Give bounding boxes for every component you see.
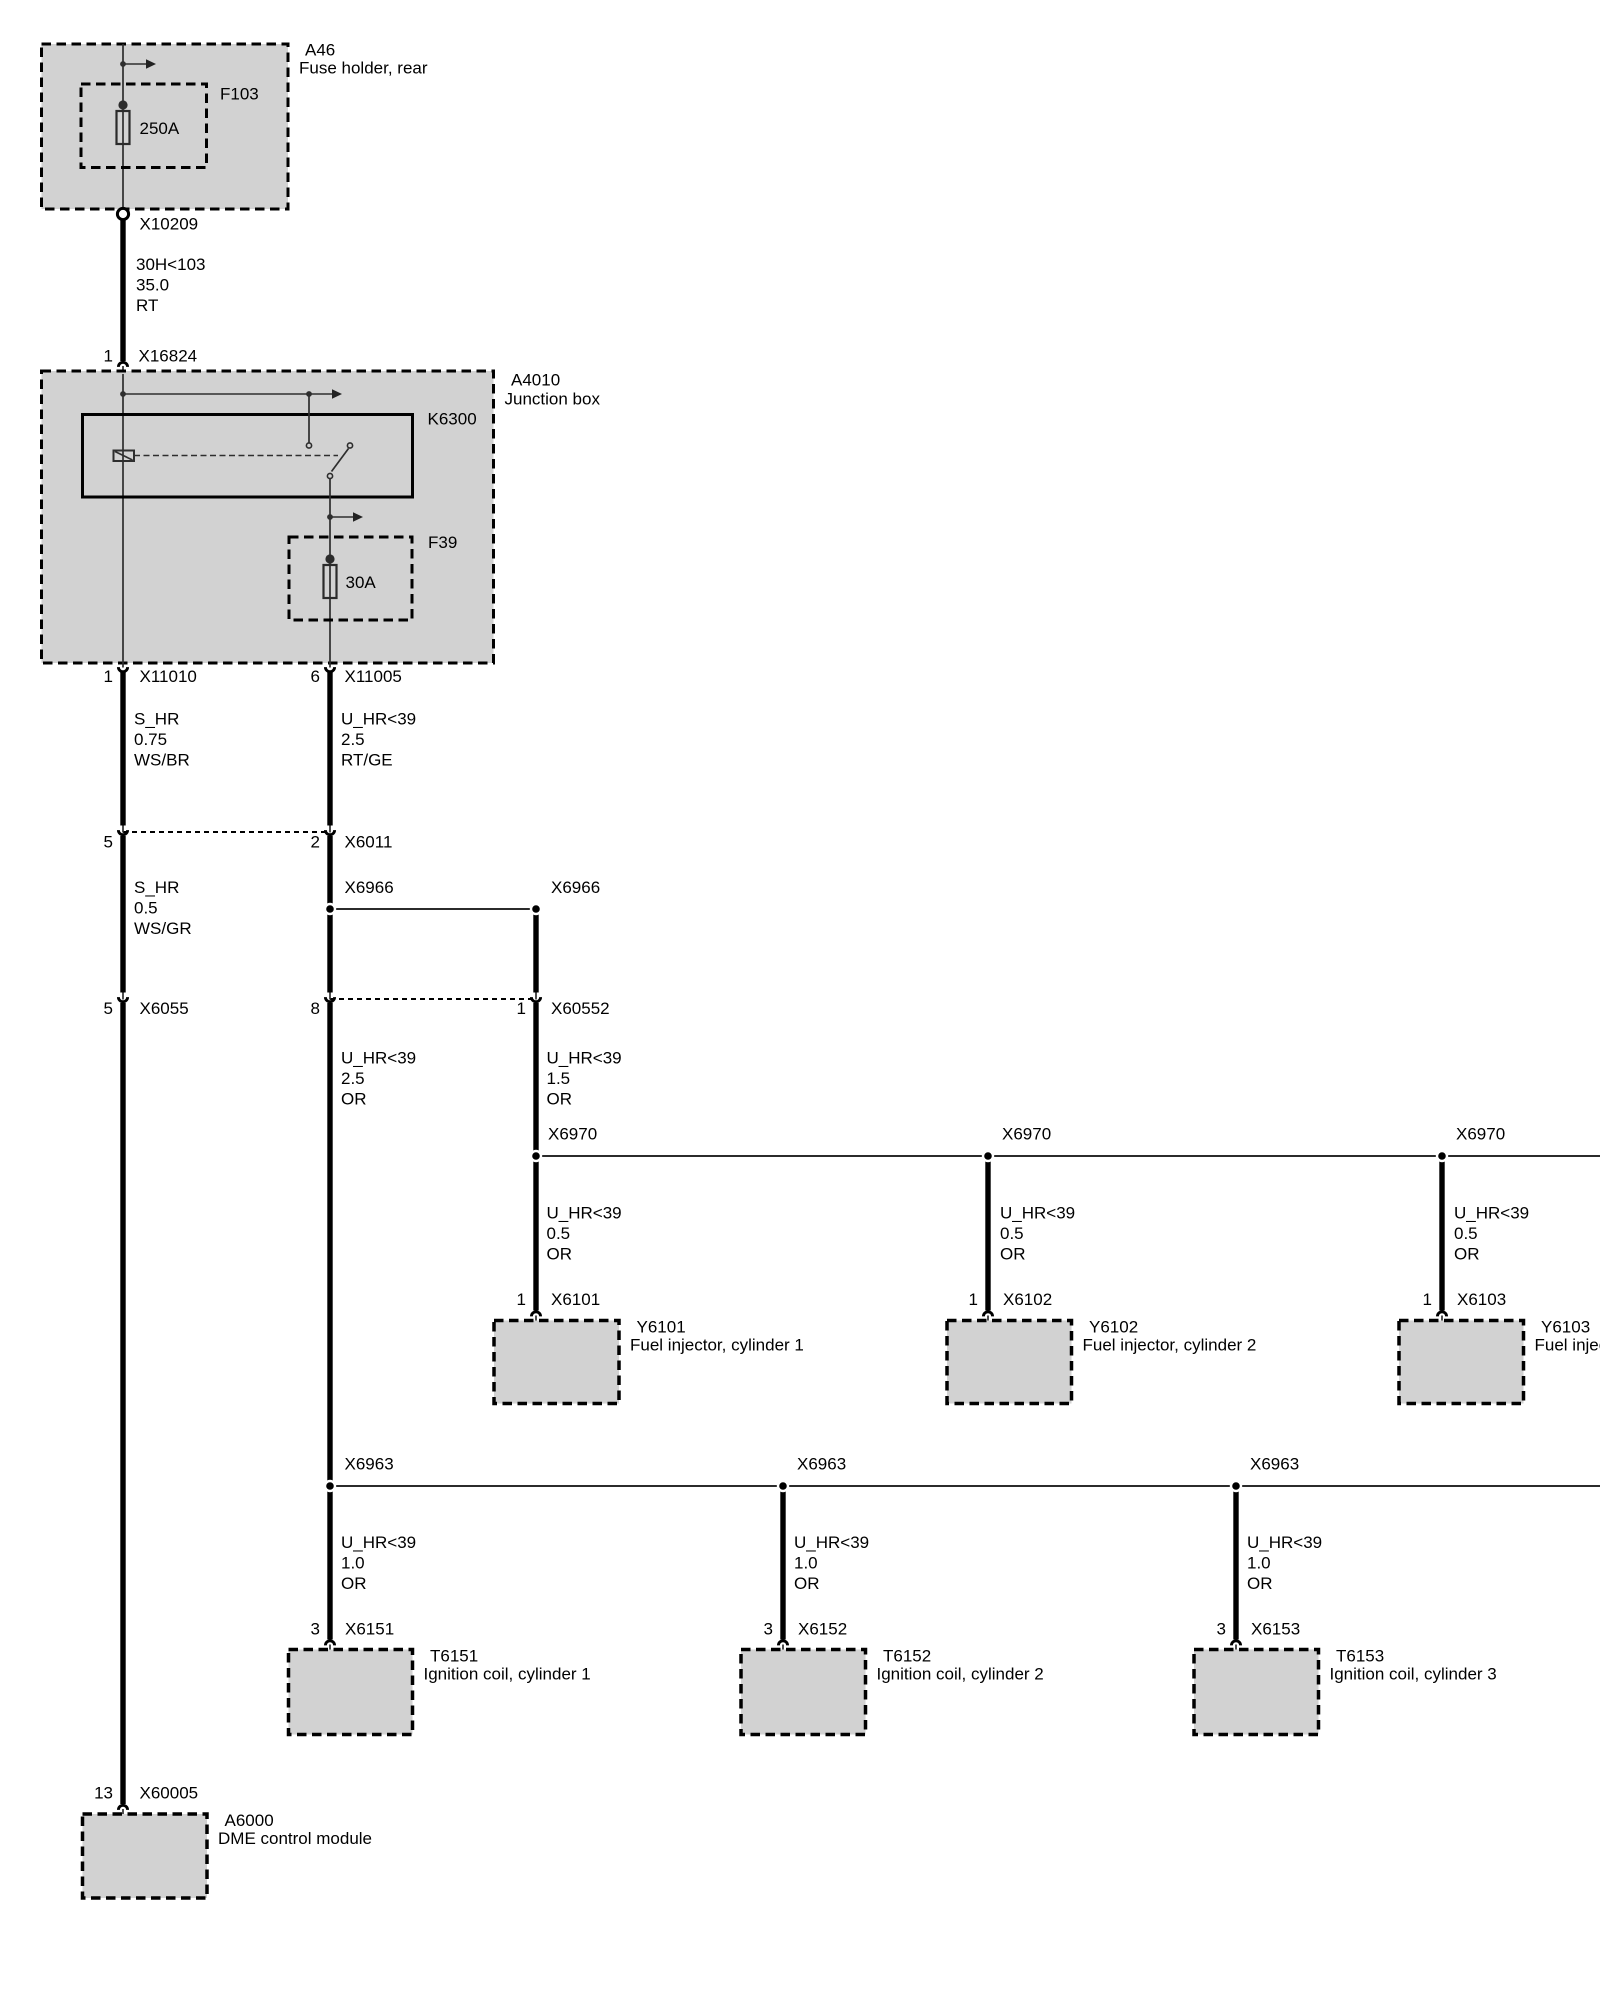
node X6970 bus bbox=[530, 1150, 1600, 1162]
svg-text:1.0: 1.0 bbox=[794, 1554, 818, 1573]
fuse F103 250A bbox=[117, 100, 130, 144]
wire inside A4010 left bbox=[122, 374, 124, 663]
wire S_HR 0.5 WS/GR bbox=[120, 836, 125, 993]
label X16824 bbox=[104, 347, 198, 366]
connector X6011 pin 5 bbox=[118, 826, 127, 835]
svg-text:Y6101: Y6101 bbox=[637, 1318, 686, 1337]
connector X6102 pin 1 bbox=[983, 1312, 992, 1323]
svg-text:1: 1 bbox=[969, 1290, 978, 1309]
svg-text:5: 5 bbox=[104, 833, 113, 852]
svg-text:OR: OR bbox=[341, 1090, 367, 1109]
wire U_HR<39 2.5 OR bbox=[327, 1003, 332, 1640]
label X6011 bbox=[104, 833, 393, 852]
svg-text:8: 8 bbox=[311, 999, 320, 1018]
svg-text:X10209: X10209 bbox=[140, 215, 199, 234]
box Y6103 Fuel injector cylinder 3 bbox=[1399, 1321, 1524, 1404]
label A46 bbox=[299, 41, 428, 78]
svg-text:WS/GR: WS/GR bbox=[134, 919, 192, 938]
label X6970 first bbox=[548, 1125, 597, 1144]
svg-text:X11005: X11005 bbox=[345, 667, 402, 686]
box A6000 DME control module bbox=[83, 1814, 208, 1898]
svg-text:250A: 250A bbox=[140, 119, 180, 138]
wire label U_HR<39 2.5 OR bbox=[341, 1049, 416, 1109]
label A4010 bbox=[505, 371, 601, 409]
svg-text:0.5: 0.5 bbox=[547, 1224, 571, 1243]
svg-text:Fuel injector, cylinder 2: Fuel injector, cylinder 2 bbox=[1083, 1336, 1257, 1355]
svg-text:1.0: 1.0 bbox=[341, 1554, 365, 1573]
svg-text:6: 6 bbox=[311, 667, 320, 686]
svg-text:U_HR<39: U_HR<39 bbox=[547, 1204, 622, 1223]
svg-text:OR: OR bbox=[547, 1245, 573, 1264]
svg-text:30A: 30A bbox=[346, 573, 377, 592]
label Y6102 bbox=[1083, 1318, 1257, 1355]
wire label U_HR<39 2.5 RT/GE bbox=[341, 710, 416, 770]
wire U_HR<39 1.5 OR bbox=[533, 1003, 538, 1156]
svg-text:35.0: 35.0 bbox=[136, 276, 169, 295]
svg-text:A6000: A6000 bbox=[225, 1811, 274, 1830]
svg-text:0.75: 0.75 bbox=[134, 730, 167, 749]
svg-text:0.5: 0.5 bbox=[1454, 1224, 1478, 1243]
svg-text:1: 1 bbox=[517, 999, 526, 1018]
branch arrow after relay bbox=[327, 512, 363, 522]
svg-text:A46: A46 bbox=[305, 41, 335, 60]
label X60552 bbox=[311, 999, 610, 1018]
svg-text:X6103: X6103 bbox=[1457, 1290, 1506, 1309]
wire X6966 branch down bbox=[533, 909, 538, 993]
svg-text:X6152: X6152 bbox=[798, 1620, 847, 1639]
label X60005 bbox=[94, 1784, 198, 1803]
label X6152 bbox=[764, 1620, 848, 1639]
svg-text:2: 2 bbox=[311, 833, 320, 852]
wire label U_HR<39 0.5 OR cyl1 bbox=[547, 1204, 622, 1264]
box T6152 Ignition coil cylinder 2 bbox=[741, 1650, 866, 1735]
connector X11005 pin 6 bbox=[325, 663, 334, 672]
relay control dashed link bbox=[134, 455, 338, 457]
connector X6151 pin 3 bbox=[325, 1641, 334, 1652]
connector X60005 pin 13 bbox=[118, 1805, 127, 1817]
label X6966 right bbox=[551, 878, 600, 897]
connector X60552 pin 8 bbox=[325, 993, 334, 1002]
connector X16824 pin 1 bbox=[118, 362, 127, 374]
connector X6011 pin 2 bbox=[325, 826, 334, 835]
svg-text:U_HR<39: U_HR<39 bbox=[547, 1049, 622, 1068]
svg-text:X6963: X6963 bbox=[345, 1455, 394, 1474]
svg-text:X6963: X6963 bbox=[1250, 1455, 1299, 1474]
svg-text:X60552: X60552 bbox=[551, 999, 610, 1018]
svg-text:X6966: X6966 bbox=[345, 878, 394, 897]
svg-text:OR: OR bbox=[1000, 1245, 1026, 1264]
wire inside A46 bbox=[122, 44, 124, 210]
wire label U_HR<39 1.0 OR cyl3 bbox=[1247, 1533, 1322, 1593]
svg-text:X6102: X6102 bbox=[1003, 1290, 1052, 1309]
wire injector 2 drop bbox=[985, 1156, 990, 1311]
svg-text:13: 13 bbox=[94, 1784, 113, 1803]
label T6151 bbox=[424, 1647, 591, 1684]
svg-text:1: 1 bbox=[517, 1290, 526, 1309]
svg-text:OR: OR bbox=[1454, 1245, 1480, 1264]
wire S_HR 0.75 WS/BR bbox=[120, 672, 125, 826]
svg-text:X60005: X60005 bbox=[140, 1784, 199, 1803]
wire 30H<103 35.0 RT bbox=[120, 220, 125, 362]
box A46 Fuse holder, rear bbox=[42, 44, 289, 209]
label X11005 bbox=[311, 667, 402, 686]
svg-text:Ignition coil, cylinder 2: Ignition coil, cylinder 2 bbox=[877, 1665, 1044, 1684]
wire U_HR<39 2.5 RT/GE bbox=[327, 672, 332, 826]
svg-text:1: 1 bbox=[1423, 1290, 1432, 1309]
label T6152 bbox=[877, 1647, 1044, 1684]
svg-text:X11010: X11010 bbox=[140, 667, 197, 686]
svg-text:RT/GE: RT/GE bbox=[341, 751, 393, 770]
label K6300 bbox=[428, 410, 477, 429]
svg-text:X6966: X6966 bbox=[551, 878, 600, 897]
svg-text:X6101: X6101 bbox=[551, 1290, 600, 1309]
feed arrow inside A4010 bbox=[120, 389, 342, 399]
svg-text:2.5: 2.5 bbox=[341, 1069, 365, 1088]
label X6963 first bbox=[345, 1455, 394, 1474]
label X6151 bbox=[311, 1620, 395, 1639]
label X6101 bbox=[517, 1290, 601, 1309]
svg-text:X6970: X6970 bbox=[548, 1125, 597, 1144]
wire label U_HR<39 0.5 OR cyl2 bbox=[1000, 1204, 1075, 1264]
fuse F39 30A bbox=[324, 554, 337, 598]
relay K6300 box bbox=[83, 415, 413, 498]
svg-text:X6970: X6970 bbox=[1002, 1125, 1051, 1144]
svg-text:S_HR: S_HR bbox=[134, 710, 179, 729]
label T6153 bbox=[1330, 1647, 1497, 1684]
wire coil 2 drop bbox=[780, 1486, 785, 1640]
svg-text:F39: F39 bbox=[428, 533, 457, 552]
relay output wire to F39 bbox=[329, 479, 331, 664]
wire label S_HR 0.5 WS/GR bbox=[134, 878, 192, 938]
svg-text:X6055: X6055 bbox=[140, 999, 189, 1018]
svg-text:X6970: X6970 bbox=[1456, 1125, 1505, 1144]
svg-text:Ignition coil, cylinder 1: Ignition coil, cylinder 1 bbox=[424, 1665, 591, 1684]
svg-text:U_HR<39: U_HR<39 bbox=[341, 1533, 416, 1552]
svg-text:1.0: 1.0 bbox=[1247, 1554, 1271, 1573]
svg-text:Ignition coil, cylinder 3: Ignition coil, cylinder 3 bbox=[1330, 1665, 1497, 1684]
box T6153 Ignition coil cylinder 3 bbox=[1194, 1650, 1319, 1735]
svg-text:0.5: 0.5 bbox=[1000, 1224, 1024, 1243]
svg-text:X6011: X6011 bbox=[345, 833, 393, 852]
wire label S_HR 0.75 WS/BR bbox=[134, 710, 190, 770]
svg-text:T6152: T6152 bbox=[883, 1647, 931, 1666]
wire label U_HR<39 0.5 OR cyl3 bbox=[1454, 1204, 1529, 1264]
box A4010 Junction box bbox=[42, 371, 494, 663]
svg-text:3: 3 bbox=[1217, 1620, 1226, 1639]
label X6970 third bbox=[1456, 1125, 1505, 1144]
svg-text:30H<103: 30H<103 bbox=[136, 255, 205, 274]
label X6103 bbox=[1423, 1290, 1507, 1309]
svg-text:Junction box: Junction box bbox=[505, 390, 601, 409]
connector X6153 pin 3 bbox=[1231, 1641, 1240, 1652]
wire label U_HR<39 1.5 OR bbox=[547, 1049, 622, 1109]
label X10209 bbox=[140, 215, 199, 234]
svg-text:RT: RT bbox=[136, 296, 158, 315]
label Y6101 bbox=[630, 1318, 804, 1355]
label X6963 third bbox=[1250, 1455, 1299, 1474]
svg-text:OR: OR bbox=[547, 1090, 573, 1109]
relay coil bbox=[114, 451, 135, 462]
connector X6055 pin 5 bbox=[118, 993, 127, 1805]
svg-text:Fuel injector, cylinder 3: Fuel injector, cylinder 3 bbox=[1535, 1336, 1600, 1355]
fuse holder F103 box bbox=[81, 84, 207, 168]
svg-text:U_HR<39: U_HR<39 bbox=[1247, 1533, 1322, 1552]
connector X6103 pin 1 bbox=[1437, 1312, 1446, 1323]
wire injector 1 drop segment bbox=[533, 1156, 538, 1311]
relay switch output contact bbox=[327, 473, 332, 478]
wire coil 3 drop bbox=[1233, 1486, 1238, 1640]
svg-text:K6300: K6300 bbox=[428, 410, 477, 429]
fuse holder F39 box bbox=[289, 537, 412, 620]
svg-text:U_HR<39: U_HR<39 bbox=[794, 1533, 869, 1552]
svg-text:3: 3 bbox=[311, 1620, 320, 1639]
svg-text:1.5: 1.5 bbox=[547, 1069, 571, 1088]
svg-text:X6153: X6153 bbox=[1251, 1620, 1300, 1639]
svg-text:A4010: A4010 bbox=[511, 371, 560, 390]
svg-text:5: 5 bbox=[104, 999, 113, 1018]
label F39 bbox=[428, 533, 457, 552]
svg-text:Y6102: Y6102 bbox=[1089, 1318, 1138, 1337]
relay switch fixed contact bbox=[347, 443, 352, 448]
svg-text:WS/BR: WS/BR bbox=[134, 751, 190, 770]
wire label U_HR<39 1.0 OR cyl1 bbox=[341, 1533, 416, 1593]
svg-text:U_HR<39: U_HR<39 bbox=[1454, 1204, 1529, 1223]
svg-text:OR: OR bbox=[794, 1574, 820, 1593]
label X6970 second bbox=[1002, 1125, 1051, 1144]
label F103 bbox=[220, 85, 259, 104]
svg-text:0.5: 0.5 bbox=[134, 899, 158, 918]
relay switch contact 30 bbox=[306, 443, 311, 448]
label X6963 second bbox=[797, 1455, 846, 1474]
svg-text:T6153: T6153 bbox=[1336, 1647, 1384, 1666]
connector X6152 pin 3 bbox=[778, 1641, 787, 1652]
wire label 30H<103 35.0 RT bbox=[136, 255, 205, 315]
feed arrow inside A46 bbox=[120, 59, 156, 69]
label A6000 bbox=[218, 1811, 372, 1848]
wire label U_HR<39 1.0 OR cyl2 bbox=[794, 1533, 869, 1593]
svg-text:Fuel injector, cylinder 1: Fuel injector, cylinder 1 bbox=[630, 1336, 804, 1355]
label 250A bbox=[140, 119, 180, 138]
connector X10209 bbox=[117, 208, 128, 219]
relay switch blade bbox=[332, 449, 349, 472]
svg-text:U_HR<39: U_HR<39 bbox=[341, 710, 416, 729]
node X6966 bus bbox=[324, 903, 542, 915]
svg-text:X16824: X16824 bbox=[139, 347, 198, 366]
connector X60552 dashed separator bbox=[330, 998, 536, 1000]
svg-text:OR: OR bbox=[341, 1574, 367, 1593]
label X6153 bbox=[1217, 1620, 1301, 1639]
box T6151 Ignition coil cylinder 1 bbox=[289, 1650, 413, 1735]
svg-text:Y6103: Y6103 bbox=[1541, 1318, 1590, 1337]
box Y6102 Fuel injector cylinder 2 bbox=[947, 1321, 1072, 1404]
svg-text:3: 3 bbox=[764, 1620, 773, 1639]
connector X11010 pin 1 bbox=[118, 663, 127, 672]
label X6102 bbox=[969, 1290, 1053, 1309]
svg-text:F103: F103 bbox=[220, 85, 259, 104]
svg-text:OR: OR bbox=[1247, 1574, 1273, 1593]
connector X6101 pin 1 bbox=[531, 1312, 540, 1323]
label 30A bbox=[346, 573, 377, 592]
wire injector 3 drop bbox=[1439, 1156, 1444, 1311]
box Y6101 Fuel injector cylinder 1 bbox=[494, 1321, 619, 1404]
svg-text:Fuse holder, rear: Fuse holder, rear bbox=[299, 59, 428, 78]
svg-text:X6963: X6963 bbox=[797, 1455, 846, 1474]
svg-text:T6151: T6151 bbox=[430, 1647, 478, 1666]
label X11010 bbox=[104, 667, 197, 686]
relay switch feed wire bbox=[308, 394, 310, 443]
svg-text:1: 1 bbox=[104, 667, 113, 686]
svg-text:U_HR<39: U_HR<39 bbox=[341, 1049, 416, 1068]
label X6055 bbox=[104, 999, 189, 1018]
node X6963 bus bbox=[324, 1480, 1600, 1492]
connector X60552 pin 1 bbox=[531, 993, 540, 1002]
wire to X6055 bbox=[327, 836, 332, 993]
svg-text:1: 1 bbox=[104, 347, 113, 366]
svg-text:U_HR<39: U_HR<39 bbox=[1000, 1204, 1075, 1223]
svg-text:S_HR: S_HR bbox=[134, 878, 179, 897]
connector X6011 dashed separator bbox=[123, 831, 330, 833]
svg-text:2.5: 2.5 bbox=[341, 730, 365, 749]
svg-text:X6151: X6151 bbox=[345, 1620, 394, 1639]
svg-text:DME control module: DME control module bbox=[218, 1829, 372, 1848]
label Y6103 bbox=[1535, 1318, 1600, 1355]
label X6966 left bbox=[345, 878, 394, 897]
